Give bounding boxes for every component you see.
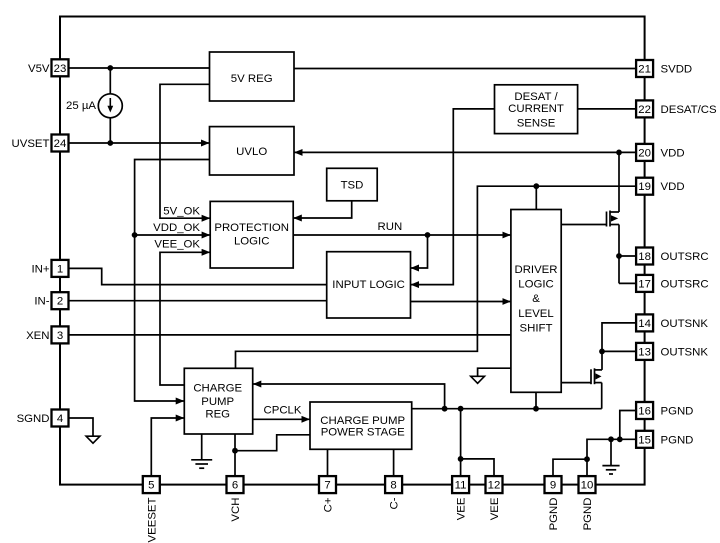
pin 24 <box>12 135 69 152</box>
wire DESAT to pin 22 <box>578 108 637 110</box>
svg-text:24: 24 <box>54 138 67 150</box>
svg-text:LOGIC: LOGIC <box>234 236 269 248</box>
outer border <box>60 17 645 485</box>
svg-text:IN+: IN+ <box>31 263 49 275</box>
wire pin 14 OUTSNK <box>602 323 636 352</box>
svg-text:18: 18 <box>638 251 651 263</box>
wire XEN <box>69 334 511 336</box>
pin 4 <box>17 410 69 427</box>
node dot V5V/current source <box>107 65 113 71</box>
pin 9 <box>545 476 562 530</box>
svg-text:5: 5 <box>148 480 154 492</box>
svg-text:5V_OK: 5V_OK <box>163 206 200 218</box>
pin 15 <box>636 431 693 448</box>
wire VEE rail <box>412 408 602 410</box>
pin 2 <box>34 292 68 309</box>
block CHARGE PUMP REG <box>184 368 252 434</box>
svg-text:5V REG: 5V REG <box>231 73 273 85</box>
pin 18 <box>636 248 708 265</box>
pin 10 <box>579 476 596 530</box>
svg-text:RUN: RUN <box>378 221 403 233</box>
wire upper MOSFET gate <box>561 224 606 226</box>
wire UVSET to UVLO <box>69 142 210 144</box>
svg-text:21: 21 <box>638 64 651 76</box>
svg-text:C+: C+ <box>323 497 335 512</box>
svg-text:POWER STAGE: POWER STAGE <box>321 427 405 439</box>
svg-text:REG: REG <box>205 408 230 420</box>
svg-text:DESAT /: DESAT / <box>514 91 558 103</box>
pin 19 <box>636 178 684 195</box>
svg-text:UVSET: UVSET <box>12 138 50 150</box>
wire VDD_OK net <box>135 160 210 402</box>
wire V5V to 5V REG <box>69 67 210 69</box>
svg-text:&: & <box>532 293 540 305</box>
wire pin 12 branch <box>461 459 494 476</box>
wire DESAT to input logic <box>411 109 495 285</box>
svg-text:PGND: PGND <box>661 406 694 418</box>
svg-text:VEE_OK: VEE_OK <box>154 238 200 250</box>
wire CPCLK <box>253 418 310 420</box>
svg-text:20: 20 <box>638 147 651 159</box>
pin 23 <box>28 59 69 76</box>
wire driver VDD stub <box>535 186 537 209</box>
svg-text:OUTSNK: OUTSNK <box>661 318 709 330</box>
svg-text:PGND: PGND <box>582 498 594 531</box>
svg-text:17: 17 <box>638 278 651 290</box>
current source I1 25uA <box>98 68 122 143</box>
svg-text:7: 7 <box>324 480 330 492</box>
pin 22 <box>636 100 717 117</box>
block DRIVER LOGIC & LEVEL SHIFT <box>511 210 561 393</box>
svg-text:C-: C- <box>389 497 401 509</box>
ground under charge pump reg <box>191 434 212 468</box>
pin 11 <box>452 476 469 520</box>
svg-text:16: 16 <box>638 406 651 418</box>
svg-text:SVDD: SVDD <box>661 64 693 76</box>
wire RUN branch to input logic <box>411 235 428 268</box>
node dot VDD_OK <box>132 232 138 238</box>
wire driver bottom stub <box>535 392 537 408</box>
svg-text:VEESET: VEESET <box>146 497 158 542</box>
wire VEESET pin 5 <box>151 418 184 476</box>
svg-text:9: 9 <box>550 480 556 492</box>
svg-text:15: 15 <box>638 434 651 446</box>
wire C- pin 8 <box>393 449 395 476</box>
wire VDD pin20 to UVLO <box>294 151 636 153</box>
svg-text:6: 6 <box>232 480 238 492</box>
wire driver logic ground branch <box>478 368 511 376</box>
svg-text:2: 2 <box>57 296 63 308</box>
block TSD <box>327 168 378 201</box>
transistor Q1 source follower <box>607 152 620 283</box>
svg-text:DESAT/CS: DESAT/CS <box>661 104 718 116</box>
svg-text:CPCLK: CPCLK <box>264 405 302 417</box>
svg-text:PROTECTION: PROTECTION <box>214 222 289 234</box>
wire pin 9 PGND <box>553 459 587 476</box>
wire VDD pin19 rail to charge pump reg <box>236 186 637 368</box>
svg-text:1: 1 <box>57 263 63 275</box>
node dot UVSET/current source <box>107 140 113 146</box>
node dot feedback <box>442 406 448 412</box>
wire pin 11 VEE <box>460 409 462 477</box>
svg-text:23: 23 <box>54 63 67 75</box>
svg-text:DRIVER: DRIVER <box>514 264 557 276</box>
svg-text:VDD_OK: VDD_OK <box>153 222 200 234</box>
block PROTECTION LOGIC <box>210 201 293 268</box>
wire IN- <box>69 300 327 302</box>
node dot VCH <box>232 448 238 454</box>
svg-text:PGND: PGND <box>661 434 694 446</box>
svg-text:VEE: VEE <box>489 497 501 520</box>
pin 3 <box>26 326 68 343</box>
pin 17 <box>636 275 708 292</box>
wire VEE_OK net <box>160 252 210 385</box>
pin 6 <box>227 476 244 521</box>
svg-text:TSD: TSD <box>341 180 364 192</box>
wire IN+ <box>69 268 327 284</box>
ground PGND <box>602 439 619 474</box>
svg-text:CURRENT: CURRENT <box>508 103 564 115</box>
wire lower MOSFET gate <box>561 382 591 384</box>
wire VCH branch to power stage <box>235 435 310 451</box>
pin 21 <box>636 60 692 77</box>
wire VDD_OK branch to protection logic <box>135 234 210 236</box>
svg-text:OUTSRC: OUTSRC <box>661 278 709 290</box>
node dot RUN <box>425 232 431 238</box>
svg-text:25 µA: 25 µA <box>66 100 96 112</box>
svg-text:SENSE: SENSE <box>517 118 556 130</box>
wire to pin 17 <box>619 282 636 284</box>
svg-text:19: 19 <box>638 181 651 193</box>
wire SGND pin 4 <box>69 418 94 436</box>
pin 8 <box>385 476 402 509</box>
pin 20 <box>636 144 684 161</box>
svg-text:OUTSRC: OUTSRC <box>661 251 709 263</box>
wire RUN <box>293 234 510 236</box>
wire C+ pin 7 <box>327 449 329 476</box>
block INPUT LOGIC <box>327 252 411 318</box>
svg-text:INPUT LOGIC: INPUT LOGIC <box>332 279 405 291</box>
svg-text:12: 12 <box>488 480 501 492</box>
svg-text:VDD: VDD <box>661 181 685 193</box>
svg-text:SGND: SGND <box>17 413 50 425</box>
pin 5 <box>143 476 160 542</box>
pin 12 <box>486 476 503 520</box>
wire 5V_OK net <box>160 84 210 218</box>
svg-text:14: 14 <box>638 318 651 330</box>
svg-text:VDD: VDD <box>661 147 685 159</box>
block CHARGE PUMP POWER STAGE <box>310 402 412 449</box>
block 5V REG <box>210 52 295 101</box>
node dot pin9/pin10 <box>584 456 590 462</box>
svg-text:SHIFT: SHIFT <box>520 322 553 334</box>
wire VCH pin 6 <box>234 434 236 476</box>
svg-text:PGND: PGND <box>548 498 560 531</box>
wire pin 10 PGND riser <box>587 439 636 476</box>
ground triangle SGND <box>86 436 100 443</box>
ground triangle driver <box>471 376 485 383</box>
svg-text:VCH: VCH <box>230 498 242 522</box>
node dot VEE pin11 top <box>458 406 464 412</box>
svg-text:IN-: IN- <box>34 296 49 308</box>
svg-text:PUMP: PUMP <box>201 396 234 408</box>
pin 13 <box>636 343 708 360</box>
node dot pin16 net <box>617 436 623 442</box>
wire to pin 18 <box>619 255 636 257</box>
svg-text:OUTSNK: OUTSNK <box>661 346 709 358</box>
svg-text:8: 8 <box>390 480 396 492</box>
svg-text:CHARGE: CHARGE <box>193 383 242 395</box>
pin 14 <box>636 314 708 331</box>
svg-text:3: 3 <box>57 330 63 342</box>
node dot VDD rail top <box>616 150 622 156</box>
node dot OUTSNK <box>599 349 605 355</box>
wire input logic to driver <box>411 301 511 303</box>
svg-text:LOGIC: LOGIC <box>518 279 553 291</box>
block DESAT / CURRENT SENSE <box>495 85 578 134</box>
svg-text:CHARGE PUMP: CHARGE PUMP <box>320 415 405 427</box>
svg-text:22: 22 <box>638 104 651 116</box>
wire 5V REG to SVDD pin 21 <box>294 68 636 70</box>
svg-text:10: 10 <box>581 480 594 492</box>
wire VEE feedback to charge pump reg <box>253 384 445 409</box>
node dot VDD/driver <box>533 183 539 189</box>
node dot ground stem <box>608 436 614 442</box>
wire pin 13 OUTSNK <box>602 350 636 352</box>
svg-text:XEN: XEN <box>26 330 49 342</box>
svg-text:V5V: V5V <box>28 63 50 75</box>
svg-text:11: 11 <box>455 480 467 492</box>
svg-text:LEVEL: LEVEL <box>518 308 553 320</box>
pin 1 <box>31 260 68 277</box>
node dot OUTSRC <box>616 253 622 259</box>
block UVLO <box>210 127 295 175</box>
svg-text:13: 13 <box>638 346 651 358</box>
svg-text:UVLO: UVLO <box>236 146 267 158</box>
wire pin 16 PGND <box>620 411 637 440</box>
wire TSD to protection logic <box>294 201 352 218</box>
node dot driver/VEE <box>533 406 539 412</box>
svg-text:VEE: VEE <box>456 497 468 520</box>
transistor Q2 sink <box>591 351 602 408</box>
pin 7 <box>319 476 336 512</box>
node dot pin11/pin12 <box>458 456 464 462</box>
svg-text:4: 4 <box>57 413 63 425</box>
pin 16 <box>636 402 693 419</box>
